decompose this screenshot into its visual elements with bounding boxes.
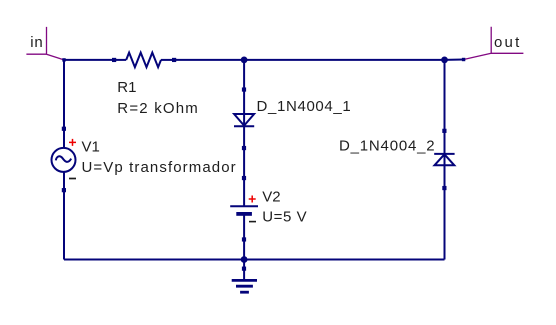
svg-text:out: out: [494, 34, 521, 51]
V2 polarity plus: [249, 196, 256, 203]
V2 polarity minus: [249, 221, 256, 223]
wire bottom: [64, 259, 445, 261]
wire middle vertical lower: [243, 212, 245, 260]
svg-text:R1: R1: [117, 79, 136, 96]
V1 polarity minus: [69, 178, 76, 180]
diode D1: [234, 87, 254, 150]
svg-text:U=Vp transformador: U=Vp transformador: [82, 159, 237, 176]
svg-text:R=2 kOhm: R=2 kOhm: [117, 100, 199, 117]
voltage source V1: [52, 127, 76, 193]
junction node top-middle: [241, 57, 248, 64]
junction node top-right: [441, 57, 448, 64]
svg-text:D_1N4004_1: D_1N4004_1: [257, 98, 352, 115]
svg-text:in: in: [30, 34, 43, 51]
svg-text:D_1N4004_2: D_1N4004_2: [339, 138, 435, 155]
svg-text:V2: V2: [262, 189, 280, 206]
svg-text:V1: V1: [82, 138, 100, 155]
wire middle vertical upper: [243, 60, 245, 206]
wire left vertical: [63, 60, 65, 260]
V1 polarity plus: [69, 139, 76, 146]
battery V2: [230, 176, 258, 242]
wire top-right: [174, 59, 444, 61]
wire out stub: [445, 59, 464, 61]
resistor R1: [112, 53, 176, 68]
junction node bottom: [241, 256, 248, 263]
port out: [462, 27, 524, 62]
svg-text:U=5 V: U=5 V: [262, 209, 307, 226]
wire right vertical: [444, 60, 446, 260]
wire top-left: [64, 59, 114, 61]
ground: [232, 260, 257, 293]
port in: [26, 27, 65, 62]
diode D2: [434, 129, 454, 190]
